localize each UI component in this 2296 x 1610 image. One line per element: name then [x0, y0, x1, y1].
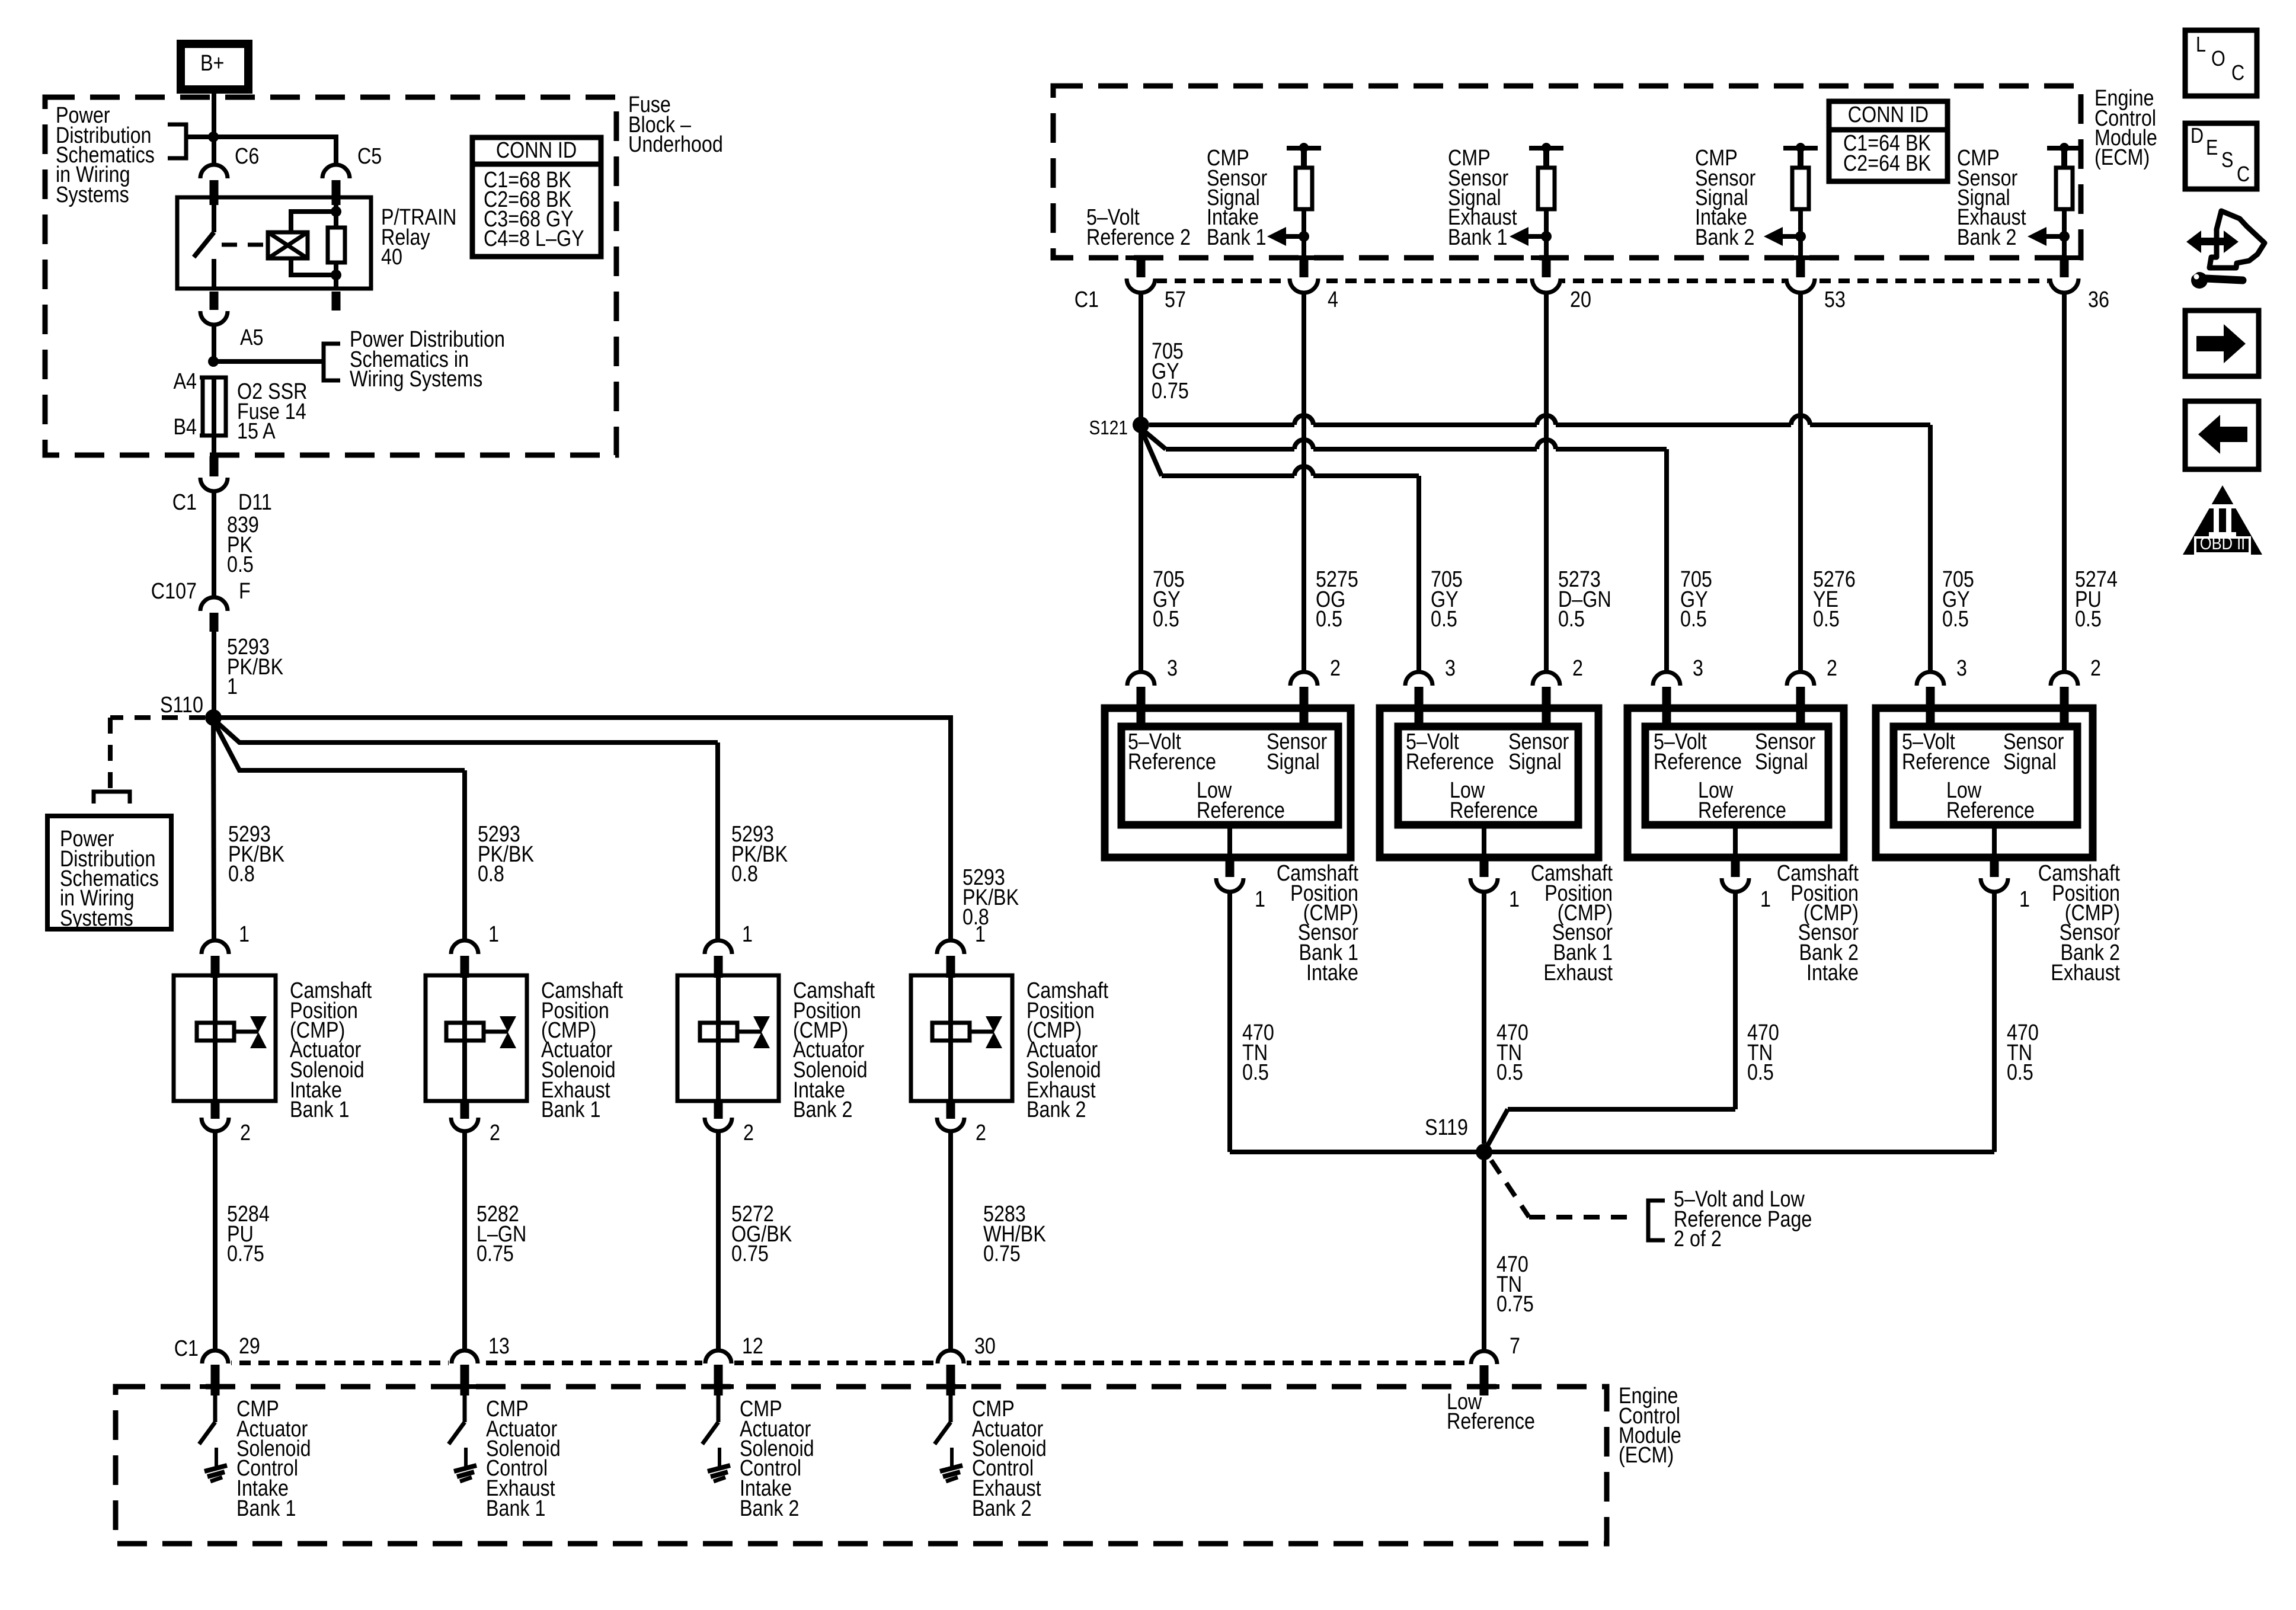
svg-text:Bank 2: Bank 2	[1957, 225, 2017, 250]
svg-text:Intake: Intake	[1306, 961, 1358, 985]
svg-text:CONN ID: CONN ID	[1848, 103, 1929, 127]
svg-text:D: D	[2191, 124, 2204, 148]
svg-text:0.5: 0.5	[2007, 1060, 2033, 1085]
svg-text:C1: C1	[174, 1336, 199, 1361]
svg-text:C6: C6	[235, 144, 259, 169]
svg-text:4: 4	[1328, 287, 1338, 312]
svg-text:Signal: Signal	[1508, 750, 1562, 774]
svg-text:0.8: 0.8	[731, 862, 758, 886]
svg-text:0.75: 0.75	[227, 1241, 264, 1266]
svg-text:(ECM): (ECM)	[2094, 145, 2150, 170]
svg-text:Bank 1: Bank 1	[1207, 225, 1267, 250]
svg-text:Bank 2: Bank 2	[972, 1496, 1032, 1521]
svg-text:Reference: Reference	[1902, 750, 1990, 774]
svg-text:Exhaust: Exhaust	[1543, 961, 1613, 985]
svg-text:Reference: Reference	[1450, 798, 1538, 823]
svg-text:2: 2	[976, 1121, 986, 1145]
svg-text:0.5: 0.5	[1496, 1060, 1523, 1085]
svg-text:B+: B+	[200, 51, 224, 76]
svg-text:S110: S110	[160, 693, 203, 718]
svg-text:29: 29	[239, 1334, 260, 1359]
svg-text:S119: S119	[1425, 1115, 1468, 1140]
svg-text:C1: C1	[1075, 287, 1099, 312]
svg-text:Signal: Signal	[2003, 750, 2057, 774]
svg-text:Reference: Reference	[1447, 1409, 1535, 1434]
svg-text:Bank 1: Bank 1	[1448, 225, 1508, 250]
svg-text:2: 2	[240, 1121, 251, 1145]
svg-text:C107: C107	[151, 579, 197, 604]
svg-text:0.5: 0.5	[1942, 607, 1969, 632]
svg-text:0.5: 0.5	[1242, 1060, 1269, 1085]
svg-text:Reference: Reference	[1698, 798, 1786, 823]
svg-text:13: 13	[488, 1334, 510, 1359]
svg-text:Bank 2: Bank 2	[793, 1097, 853, 1122]
svg-text:O: O	[2211, 47, 2225, 71]
svg-text:1: 1	[742, 922, 753, 947]
svg-text:Wiring Systems: Wiring Systems	[350, 367, 482, 392]
svg-text:0.5: 0.5	[227, 552, 254, 577]
svg-text:Reference 2: Reference 2	[1086, 225, 1191, 250]
svg-text:0.8: 0.8	[228, 862, 255, 886]
svg-text:15 A: 15 A	[237, 419, 276, 444]
svg-text:0.5: 0.5	[1153, 607, 1179, 632]
svg-text:Underhood: Underhood	[628, 132, 723, 157]
svg-text:1: 1	[2019, 887, 2030, 912]
svg-text:2: 2	[490, 1121, 500, 1145]
svg-text:0.75: 0.75	[477, 1241, 514, 1266]
svg-text:S: S	[2221, 149, 2233, 172]
svg-text:F: F	[239, 579, 251, 604]
svg-text:2: 2	[1827, 656, 1837, 681]
svg-text:0.75: 0.75	[983, 1241, 1021, 1266]
svg-text:Signal: Signal	[1267, 750, 1320, 774]
svg-text:0.5: 0.5	[1316, 607, 1342, 632]
svg-text:L: L	[2196, 33, 2206, 57]
svg-text:2 of 2: 2 of 2	[1674, 1227, 1722, 1251]
svg-text:Bank 2: Bank 2	[740, 1496, 800, 1521]
svg-text:S121: S121	[1089, 417, 1127, 439]
svg-text:0.5: 0.5	[1747, 1060, 1774, 1085]
svg-text:Reference: Reference	[1128, 750, 1216, 774]
svg-text:3: 3	[1956, 656, 1967, 681]
svg-text:0.75: 0.75	[1496, 1292, 1534, 1317]
svg-text:A5: A5	[240, 325, 263, 350]
svg-text:2: 2	[1330, 656, 1341, 681]
svg-text:Reference: Reference	[1406, 750, 1494, 774]
svg-text:D11: D11	[238, 490, 272, 515]
svg-text:(ECM): (ECM)	[1619, 1443, 1674, 1468]
svg-text:1: 1	[1255, 887, 1265, 912]
svg-text:Bank 1: Bank 1	[290, 1097, 350, 1122]
svg-text:57: 57	[1165, 287, 1186, 312]
svg-text:0.75: 0.75	[1152, 379, 1189, 404]
svg-text:Systems: Systems	[56, 183, 129, 207]
svg-text:0.5: 0.5	[1680, 607, 1707, 632]
svg-text:3: 3	[1693, 656, 1703, 681]
svg-text:C5: C5	[357, 144, 382, 169]
svg-text:7: 7	[1510, 1334, 1520, 1359]
svg-text:20: 20	[1570, 287, 1591, 312]
svg-text:C: C	[2231, 62, 2244, 85]
svg-text:Intake: Intake	[1806, 961, 1859, 985]
svg-text:2: 2	[743, 1121, 754, 1145]
svg-text:0.5: 0.5	[1558, 607, 1585, 632]
svg-text:OBD II: OBD II	[2200, 533, 2245, 553]
svg-text:B4: B4	[174, 415, 197, 440]
svg-text:E: E	[2206, 136, 2218, 160]
svg-text:36: 36	[2088, 287, 2109, 312]
svg-text:0.5: 0.5	[1431, 607, 1457, 632]
svg-text:C4=8 L–GY: C4=8 L–GY	[484, 226, 584, 251]
svg-text:Signal: Signal	[1755, 750, 1808, 774]
svg-text:1: 1	[975, 922, 986, 947]
svg-text:C: C	[2237, 163, 2250, 187]
svg-text:1: 1	[227, 674, 238, 699]
svg-text:Bank 1: Bank 1	[236, 1496, 296, 1521]
svg-text:12: 12	[742, 1334, 763, 1359]
svg-text:Reference: Reference	[1197, 798, 1285, 823]
svg-text:0.75: 0.75	[731, 1241, 769, 1266]
svg-text:C2=64 BK: C2=64 BK	[1843, 151, 1932, 176]
svg-text:2: 2	[2090, 656, 2101, 681]
svg-text:3: 3	[1167, 656, 1178, 681]
svg-text:Exhaust: Exhaust	[2051, 961, 2120, 985]
svg-text:Bank 2: Bank 2	[1027, 1097, 1086, 1122]
svg-text:30: 30	[974, 1334, 996, 1359]
svg-text:Reference: Reference	[1946, 798, 2035, 823]
svg-text:53: 53	[1824, 287, 1846, 312]
svg-text:Bank 2: Bank 2	[1695, 225, 1755, 250]
svg-text:0.5: 0.5	[1813, 607, 1840, 632]
svg-text:Bank 1: Bank 1	[541, 1097, 601, 1122]
svg-text:1: 1	[239, 922, 250, 947]
svg-text:Reference: Reference	[1654, 750, 1742, 774]
svg-text:A4: A4	[174, 369, 197, 394]
svg-text:1: 1	[1760, 887, 1771, 912]
svg-text:3: 3	[1445, 656, 1456, 681]
svg-text:0.8: 0.8	[478, 862, 504, 886]
svg-text:40: 40	[381, 245, 402, 270]
svg-text:Systems: Systems	[60, 906, 133, 931]
svg-text:Bank 1: Bank 1	[486, 1496, 546, 1521]
svg-text:2: 2	[1572, 656, 1583, 681]
svg-text:1: 1	[1509, 887, 1520, 912]
svg-text:1: 1	[488, 922, 499, 947]
svg-text:0.5: 0.5	[2075, 607, 2102, 632]
svg-text:C1: C1	[172, 490, 197, 515]
svg-text:CONN ID: CONN ID	[496, 138, 577, 163]
